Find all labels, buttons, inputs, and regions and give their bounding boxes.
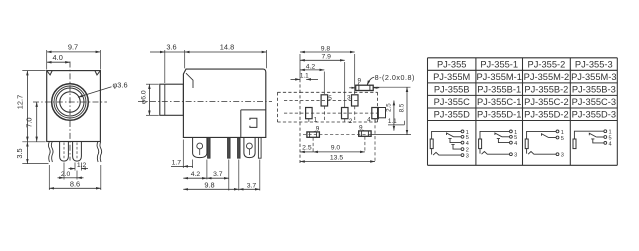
svg-text:PJ-355M: PJ-355M <box>433 72 470 82</box>
svg-text:1.2: 1.2 <box>77 162 87 169</box>
svg-text:PJ-355D-2: PJ-355D-2 <box>524 109 568 119</box>
svg-text:1: 1 <box>314 116 318 123</box>
svg-text:1.7: 1.7 <box>172 159 182 166</box>
svg-text:7.0: 7.0 <box>24 117 33 127</box>
svg-text:PJ-355B: PJ-355B <box>434 84 470 94</box>
svg-text:1.1: 1.1 <box>300 73 309 80</box>
svg-text:9.7: 9.7 <box>68 43 78 52</box>
svg-text:PJ-355: PJ-355 <box>437 59 466 69</box>
svg-text:5: 5 <box>328 95 332 102</box>
svg-text:PJ-355C: PJ-355C <box>434 97 470 107</box>
svg-text:PJ-355C-3: PJ-355C-3 <box>572 97 616 107</box>
svg-text:2: 2 <box>349 118 353 125</box>
svg-text:8.6: 8.6 <box>70 179 80 188</box>
svg-text:9: 9 <box>358 77 362 84</box>
svg-text:3: 3 <box>347 94 351 101</box>
svg-text:4: 4 <box>609 141 612 147</box>
svg-text:PJ-355-2: PJ-355-2 <box>528 59 566 69</box>
svg-text:2.5: 2.5 <box>302 145 312 152</box>
svg-text:PJ-355B-2: PJ-355B-2 <box>524 84 568 94</box>
svg-text:3.5: 3.5 <box>15 148 24 158</box>
svg-text:3: 3 <box>466 154 469 160</box>
svg-text:PJ-355C-2: PJ-355C-2 <box>524 97 568 107</box>
svg-text:2.5: 2.5 <box>385 103 392 112</box>
svg-text:PJ-355M-3: PJ-355M-3 <box>571 72 616 82</box>
svg-text:3.7: 3.7 <box>213 171 223 178</box>
svg-text:9.8: 9.8 <box>204 180 214 189</box>
svg-text:12.7: 12.7 <box>15 95 24 109</box>
svg-text:PJ-355-1: PJ-355-1 <box>480 59 518 69</box>
svg-text:PJ-355B-3: PJ-355B-3 <box>572 84 616 94</box>
svg-text:4: 4 <box>466 141 469 147</box>
svg-text:4.2: 4.2 <box>306 63 316 70</box>
svg-text:4.0: 4.0 <box>53 53 63 62</box>
svg-text:9.8: 9.8 <box>321 45 331 52</box>
svg-text:9: 9 <box>359 124 363 131</box>
svg-text:PJ-355D-1: PJ-355D-1 <box>477 109 521 119</box>
svg-text:PJ-355-3: PJ-355-3 <box>575 59 613 69</box>
svg-text:14.8: 14.8 <box>220 42 234 51</box>
svg-text:13.5: 13.5 <box>330 154 343 161</box>
svg-text:φ6.0: φ6.0 <box>140 90 147 104</box>
svg-text:2.0: 2.0 <box>61 171 71 178</box>
svg-text:8.5: 8.5 <box>398 103 405 112</box>
svg-text:8-(2.0x0.8): 8-(2.0x0.8) <box>375 73 415 82</box>
svg-text:9.0: 9.0 <box>331 145 341 152</box>
svg-text:3.6: 3.6 <box>166 43 176 52</box>
svg-text:PJ-355M-2: PJ-355M-2 <box>524 72 569 82</box>
svg-text:PJ-355D-3: PJ-355D-3 <box>572 109 616 119</box>
svg-text:PJ-355M-1: PJ-355M-1 <box>476 72 521 82</box>
svg-text:PJ-355B-1: PJ-355B-1 <box>477 84 521 94</box>
svg-text:3: 3 <box>514 153 517 159</box>
svg-text:1: 1 <box>561 130 564 136</box>
svg-text:1.1: 1.1 <box>388 118 397 125</box>
svg-text:PJ-355D: PJ-355D <box>434 109 470 119</box>
svg-text:7.9: 7.9 <box>321 54 331 61</box>
svg-text:4: 4 <box>367 117 371 124</box>
svg-text:3.7: 3.7 <box>247 182 257 189</box>
svg-text:4.2: 4.2 <box>191 171 201 178</box>
svg-text:5: 5 <box>561 136 564 142</box>
svg-text:φ3.6: φ3.6 <box>113 81 128 90</box>
svg-text:9: 9 <box>316 126 320 133</box>
svg-text:4: 4 <box>514 141 517 147</box>
svg-text:3: 3 <box>561 153 564 159</box>
svg-text:PJ-355C-1: PJ-355C-1 <box>477 97 521 107</box>
